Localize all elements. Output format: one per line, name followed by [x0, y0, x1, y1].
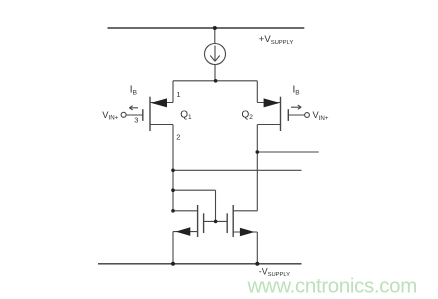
- svg-text:www.cntronics.com: www.cntronics.com: [247, 276, 417, 298]
- svg-text:Q2: Q2: [242, 109, 254, 121]
- svg-text:VIN+: VIN+: [102, 110, 118, 122]
- svg-text:3: 3: [134, 115, 138, 124]
- svg-text:Q1: Q1: [180, 109, 192, 121]
- svg-text:IB: IB: [293, 85, 300, 97]
- svg-text:2: 2: [176, 132, 180, 141]
- svg-text:VIN+: VIN+: [313, 110, 329, 122]
- svg-text:IB: IB: [130, 85, 137, 97]
- svg-text:1: 1: [176, 90, 180, 99]
- svg-text:+VSUPPLY: +VSUPPLY: [259, 34, 294, 46]
